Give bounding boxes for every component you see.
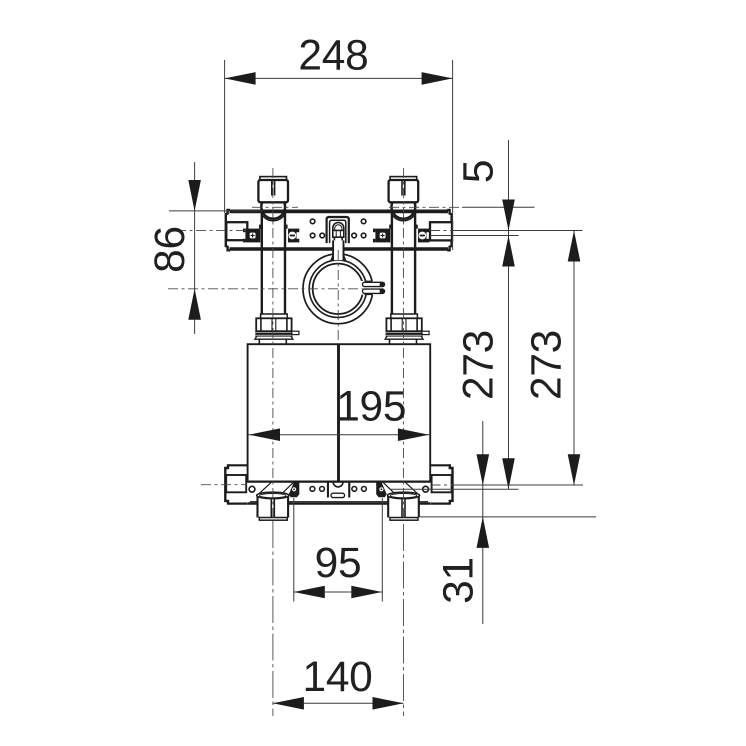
bottom rail (225, 464, 452, 504)
bottom rail bottom edge (248, 502, 431, 505)
center oblong slot (331, 493, 345, 497)
left bottom nut (257, 492, 289, 520)
pipe clamp ring (303, 240, 385, 323)
bracket neck (333, 237, 335, 240)
clamp horizontal centerline / 86 lower reference (168, 288, 382, 290)
rail screw holes (310, 219, 315, 224)
box divider (337, 344, 340, 481)
svg-text:5: 5 (456, 160, 503, 183)
dim 5 upper reference (rail ear centerline ext) (430, 230, 453, 232)
clamp ring outer circle (303, 254, 373, 324)
dim 248 left extension (224, 60, 226, 213)
block A left of left pipe (245, 229, 260, 243)
dim 95 arrows (294, 586, 325, 599)
right wedge clip (376, 482, 386, 497)
dim 86 arrows (188, 180, 201, 211)
svg-text:86: 86 (147, 226, 194, 273)
273-left lower reference (hole centerline ext) (390, 488, 519, 490)
svg-text:95: 95 (315, 540, 362, 587)
dim 95 extensions (293, 498, 295, 602)
dim 248 arrows (225, 72, 256, 85)
clamp stub sides (332, 240, 334, 260)
keyhole dome inner (335, 225, 342, 230)
svg-text:140: 140 (302, 654, 372, 701)
pipe clamp blocks with screws (243, 225, 429, 243)
ring cut for prongs (361, 281, 375, 295)
central bracket outer U (327, 217, 349, 243)
top rail right end cap (447, 210, 451, 250)
dim 5 / 273-left line (508, 140, 510, 489)
left mid nut (255, 314, 299, 344)
central bracket inner U (330, 220, 346, 243)
right top nut (390, 177, 417, 180)
block B right of left pipe (288, 229, 297, 243)
upper prong (363, 282, 385, 286)
bottom ear centerline ext / 273-right lower reference (431, 484, 453, 486)
right mid nut (385, 314, 429, 344)
stub to clamp (334, 244, 342, 258)
washers (255, 331, 292, 333)
clamp ring mid circle (309, 260, 366, 317)
left sphere fitting (261, 195, 285, 219)
center slot bars (327, 483, 329, 498)
box (248, 344, 431, 481)
dim 195 line (248, 434, 430, 436)
bottom rail inner bottom line (250, 501, 428, 503)
dim 140 line (273, 702, 404, 704)
top rail bottom edge (230, 247, 449, 251)
dim 5 arrows (502, 200, 515, 231)
dim 31 arrows (477, 454, 490, 485)
dim 195 arrows (249, 428, 280, 441)
right bottom nut (387, 492, 419, 520)
dim 86 upper reference (169, 210, 262, 212)
dim 31 line (482, 421, 484, 624)
bottom nuts (257, 492, 420, 520)
keyhole box (333, 230, 344, 237)
top left ear centerline (176, 229, 247, 231)
box outline (248, 344, 431, 481)
bottom right ear (430, 464, 449, 466)
dim 140 arrows (273, 697, 304, 710)
top rail right ear (430, 222, 452, 240)
top rail left ear (226, 222, 247, 240)
left wedge clip (289, 482, 299, 497)
left sphere horizontal centerline (252, 206, 298, 208)
cut edge steps (365, 280, 373, 282)
svg-text:195: 195 (336, 383, 406, 430)
dim 31 bottom reference (nut bottom ext) (419, 516, 596, 518)
center dome (333, 482, 343, 487)
keyhole dome outer (333, 223, 344, 231)
dim 273-right line (573, 231, 575, 486)
dim 248 line (225, 77, 453, 79)
dim 273-right arrows (568, 231, 581, 262)
top rail top edge (230, 209, 449, 213)
bottom left ear centerline (201, 484, 247, 486)
spout tab (292, 331, 299, 334)
left pipe (261, 210, 263, 313)
lower prong (363, 289, 385, 293)
left pipe vertical centerline (272, 168, 274, 520)
svg-text:248: 248 (298, 32, 368, 79)
dim 86 line (194, 162, 196, 334)
right gussets (405, 482, 417, 493)
center hole pairs (310, 487, 315, 492)
mid nuts at pipe bottoms (255, 314, 429, 344)
top rail left end cap (226, 210, 230, 250)
right sphere fitting (392, 195, 416, 219)
bottom rail outer holes (249, 486, 255, 492)
clamp vertical centerline (337, 250, 339, 342)
dim 248 right extension (452, 60, 454, 250)
svg-text:273: 273 (524, 330, 571, 400)
block C left of right pipe (375, 229, 390, 243)
right pipe (391, 210, 393, 313)
clamp ring inner circle (313, 264, 363, 314)
svg-text:31: 31 (436, 557, 483, 604)
svg-text:273: 273 (456, 330, 503, 400)
block D right of right pipe (418, 229, 427, 243)
dim 5 lower reference (rail hole centerline ext) (430, 235, 519, 237)
left gussets (260, 482, 272, 493)
dim 273-left bottom arrow (502, 458, 515, 489)
right pipe vertical centerline (403, 168, 405, 520)
bottom left ear (228, 464, 247, 466)
left top nut (260, 177, 287, 180)
right sphere horizontal centerline (389, 206, 462, 208)
dim 95 line (294, 591, 383, 593)
gap for stub at top (334, 243, 343, 260)
bottom rail top edge (248, 481, 431, 483)
